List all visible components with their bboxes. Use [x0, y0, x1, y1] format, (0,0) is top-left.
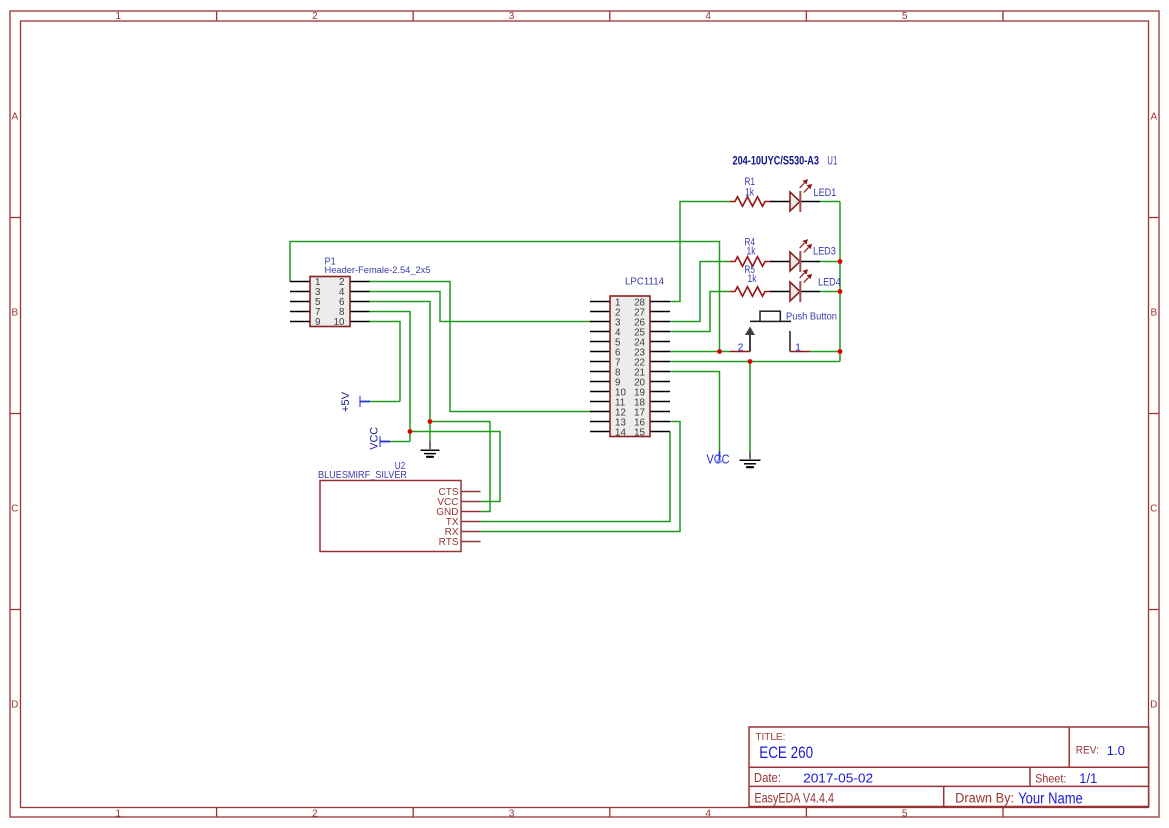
svg-text:B: B	[11, 308, 18, 319]
svg-text:A: A	[1150, 112, 1157, 123]
svg-text:1.0: 1.0	[1107, 743, 1125, 758]
svg-text:5: 5	[902, 808, 908, 819]
svg-text:2: 2	[312, 808, 318, 819]
svg-text:LPC1114: LPC1114	[625, 277, 664, 288]
svg-text:1: 1	[116, 11, 122, 22]
svg-text:C: C	[11, 504, 18, 515]
svg-text:B: B	[1150, 308, 1157, 319]
svg-text:2: 2	[312, 11, 318, 22]
svg-text:Push Button: Push Button	[786, 312, 837, 323]
svg-text:2: 2	[738, 343, 744, 354]
svg-text:1: 1	[795, 343, 801, 354]
svg-text:BLUESMIRF_SILVER: BLUESMIRF_SILVER	[318, 470, 407, 481]
svg-text:RTS: RTS	[439, 537, 459, 548]
svg-text:10: 10	[334, 317, 345, 328]
svg-text:1: 1	[116, 808, 122, 819]
svg-text:15: 15	[634, 428, 645, 439]
svg-text:D: D	[1150, 700, 1157, 711]
svg-text:9: 9	[315, 317, 320, 328]
svg-text:+5V: +5V	[340, 391, 352, 412]
svg-text:REV:: REV:	[1076, 745, 1099, 757]
svg-text:4: 4	[705, 11, 711, 22]
svg-text:Date:: Date:	[754, 770, 781, 785]
svg-text:1k: 1k	[748, 273, 758, 285]
svg-text:VCC: VCC	[369, 427, 381, 450]
svg-text:EasyEDA V4.4.4: EasyEDA V4.4.4	[754, 790, 834, 805]
svg-text:A: A	[11, 112, 18, 123]
svg-text:TITLE:: TITLE:	[755, 732, 785, 743]
svg-text:Drawn By:: Drawn By:	[955, 791, 1014, 806]
svg-text:LED4: LED4	[818, 277, 841, 289]
svg-text:204-10UYC/S530-A3: 204-10UYC/S530-A3	[733, 154, 820, 168]
svg-text:Your Name: Your Name	[1018, 791, 1083, 808]
svg-text:3: 3	[509, 11, 515, 22]
svg-text:U1: U1	[827, 156, 837, 168]
svg-text:1/1: 1/1	[1079, 771, 1097, 786]
svg-text:1k: 1k	[745, 187, 755, 199]
svg-text:Sheet:: Sheet:	[1035, 772, 1066, 786]
svg-text:2017-05-02: 2017-05-02	[803, 770, 873, 785]
svg-text:1k: 1k	[747, 246, 757, 258]
svg-text:VCC: VCC	[707, 452, 730, 467]
svg-text:4: 4	[705, 808, 711, 819]
svg-text:C: C	[1150, 504, 1157, 515]
svg-text:LED1: LED1	[814, 187, 837, 199]
svg-text:ECE 260: ECE 260	[759, 743, 813, 762]
svg-text:LED3: LED3	[813, 246, 836, 258]
svg-text:3: 3	[509, 808, 515, 819]
svg-text:5: 5	[902, 11, 908, 22]
svg-text:D: D	[11, 700, 18, 711]
svg-text:14: 14	[615, 428, 626, 439]
svg-text:Header-Female-2.54_2x5: Header-Female-2.54_2x5	[325, 265, 431, 276]
